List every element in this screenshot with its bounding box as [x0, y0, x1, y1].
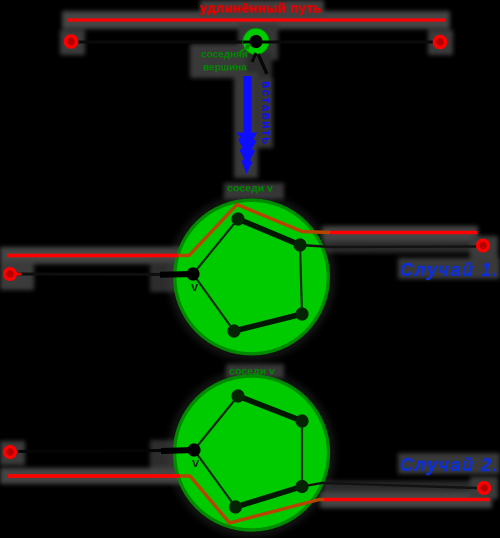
edge: thick stub from v to outside	[160, 271, 194, 278]
svg-text:v: v	[191, 279, 199, 294]
wire: small black edges below vertex	[252, 53, 256, 62]
node v: new vertex green ring	[243, 29, 268, 54]
arrow: big blue arrow down	[244, 76, 252, 135]
node: right red endpoint dot case 2	[479, 483, 490, 494]
pointer: green arrow to vertex	[240, 45, 250, 52]
wire: black line left dot to v	[17, 273, 170, 277]
node: left endpoint dot	[65, 36, 76, 47]
edge: right-bottom to bottom (thick)	[234, 314, 302, 331]
node: pentagon vertices circle 2	[187, 443, 200, 456]
edge: top-left to right-top (thick)	[238, 396, 302, 421]
node: left red endpoint dot case 1	[5, 269, 16, 280]
svg-text:удлинённый путь: удлинённый путь	[200, 1, 322, 16]
wire: red stub right of dot	[14, 273, 21, 276]
wire: black line right-bottom vertex to right dot	[302, 483, 477, 488]
edge: right-top to right-bottom (thin)	[301, 421, 303, 487]
svg-text:Случай 2.: Случай 2.	[400, 455, 499, 475]
edge: top-left to right-top (thick)	[238, 219, 300, 245]
node: right red endpoint dot case 1	[478, 240, 489, 251]
edge: v to top-left vertex (thin)	[193, 219, 238, 274]
wire: black line left dot to v	[17, 451, 170, 452]
edge: bottom to v (thin)	[193, 274, 234, 331]
edge: right-bottom to bottom (thick)	[236, 487, 303, 508]
edge: thick stub from v to outside	[161, 450, 195, 451]
svg-text:вставить: вставить	[260, 81, 274, 146]
edge: v to top-left vertex (thin)	[194, 396, 238, 450]
wire: black stub through vertex	[243, 41, 270, 44]
jpeg halo circle rims	[173, 198, 331, 532]
node: pentagon vertices circle 1	[186, 267, 199, 280]
node: left red endpoint dot case 2	[5, 447, 16, 458]
blob: big green circle 1	[175, 200, 329, 354]
edge: right-top to right-bottom (thin)	[300, 245, 302, 314]
wire: black line right-top vertex to right dot	[300, 245, 477, 247]
svg-text:v: v	[192, 455, 200, 470]
wire: top black old path line	[78, 41, 433, 44]
svg-text:вершина: вершина	[203, 63, 247, 74]
blob: big green circle 2	[175, 376, 329, 530]
node: right endpoint dot	[434, 36, 445, 47]
edge: bottom to v (thin)	[194, 450, 236, 507]
path: red rerouted path case 1	[8, 205, 330, 256]
svg-text:соседи v: соседи v	[227, 183, 273, 195]
svg-text:Случай 1.: Случай 1.	[400, 260, 499, 280]
path: red rerouted path case 2	[8, 476, 330, 523]
wire: top red path line	[68, 18, 445, 21]
